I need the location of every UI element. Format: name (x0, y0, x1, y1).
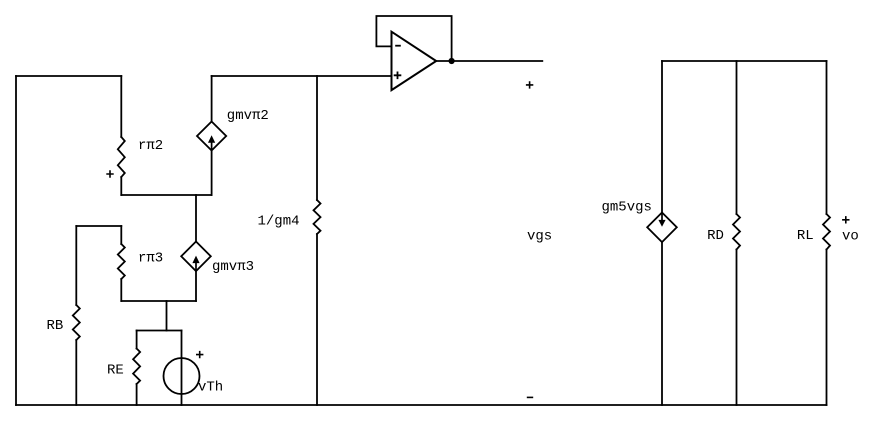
controlled source gmvπ3 (181, 242, 211, 272)
resistor RB (73, 305, 80, 340)
wire rpi2 top lead (120, 76, 122, 137)
wire RL bottom lead (826, 250, 828, 406)
resistor 1/gm4 (314, 200, 321, 234)
node output junction (449, 58, 455, 64)
wire E3 stub down (166, 301, 168, 331)
wire rpi2 bottom lead (120, 177, 122, 195)
wire gm5vgs bottom lead (661, 242, 663, 405)
svg-text:RL: RL (797, 228, 814, 244)
wire right block top rail (662, 60, 827, 62)
wire output (436, 60, 542, 62)
wire bottom rail (16, 404, 827, 406)
wire rpi3 top lead (120, 226, 122, 244)
wire feedback loop (376, 16, 451, 61)
resistor rπ3 (118, 244, 125, 279)
resistor RD (733, 214, 740, 250)
wire node E3 horizontal (121, 300, 196, 302)
label plus vo (842, 216, 849, 223)
wire RE-vTh top horizontal (137, 330, 182, 332)
svg-text:RE: RE (107, 363, 124, 379)
wire top-left horizontal (16, 75, 121, 77)
label plus vgs (526, 81, 533, 88)
wire RE bottom lead (136, 384, 138, 405)
wire rpi3 bottom lead (120, 279, 122, 301)
svg-text:vo: vo (842, 228, 859, 244)
wire gmvpi2 bottom lead (211, 151, 213, 196)
wire RB bottom lead (75, 340, 77, 405)
svg-text:RB: RB (47, 318, 64, 334)
label plus vTh (196, 351, 203, 358)
wire left rail vertical (15, 76, 17, 405)
wire RD top lead (736, 61, 738, 214)
resistor rπ2 (118, 137, 125, 177)
wire RB top horizontal (76, 225, 121, 227)
label minus vgs (527, 396, 533, 398)
wire RB top lead (75, 226, 77, 305)
svg-text:gm5vgs: gm5vgs (602, 200, 652, 216)
wire gmvpi2 top lead (211, 76, 213, 122)
svg-text:gmvπ2: gmvπ2 (227, 108, 269, 124)
wire RD bottom lead (736, 250, 738, 406)
wire gmvpi3 top lead (195, 195, 197, 242)
svg-text:rπ2: rπ2 (138, 138, 163, 154)
wire 1/gm4 bottom lead (316, 234, 318, 405)
wire vTh column (181, 331, 183, 406)
source vTh (164, 358, 200, 394)
wire RL top lead (826, 61, 828, 214)
svg-text:1/gm4: 1/gm4 (258, 214, 300, 230)
label plus op-amp (394, 46, 402, 79)
resistor RL (823, 214, 830, 250)
wire top input horizontal (212, 75, 392, 77)
controlled source gmvπ2 (197, 122, 226, 151)
svg-text:rπ3: rπ3 (138, 251, 163, 267)
label plus rpi2 (106, 170, 113, 177)
op-amp U1 (392, 32, 437, 90)
wire gmvpi3 bottom lead (195, 271, 197, 301)
wire gm5vgs top lead (661, 61, 663, 213)
wire node B2-E2 horizontal (121, 194, 211, 196)
wire 1/gm4 top lead (316, 76, 318, 200)
resistor RE (133, 349, 140, 385)
svg-text:RD: RD (707, 228, 724, 244)
svg-text:vTh: vTh (198, 380, 223, 396)
svg-text:vgs: vgs (527, 229, 552, 245)
svg-text:gmvπ3: gmvπ3 (212, 259, 254, 275)
wire RE top lead (136, 331, 138, 349)
controlled source gm5vgs (647, 213, 677, 243)
label minus op-amp (395, 45, 401, 47)
